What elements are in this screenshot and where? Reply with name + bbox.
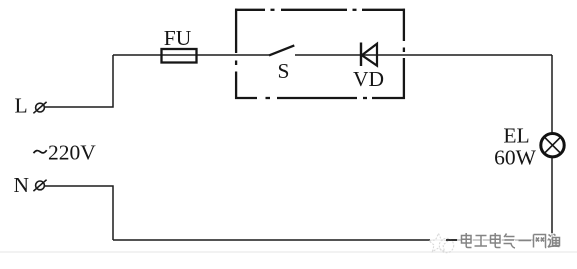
watermark logo (star and circle)	[429, 234, 454, 253]
svg-text:220V: 220V	[48, 140, 96, 164]
diode VD triangle	[362, 44, 377, 66]
switch S blade	[269, 45, 294, 55]
dash-dot enclosure top edge	[235, 9, 405, 11]
terminal L (circle with slash)	[33, 102, 46, 113]
dash-dot enclosure bottom edge	[235, 97, 405, 99]
svg-text:VD: VD	[353, 67, 384, 91]
wire: top run from riser to switch left contact	[113, 54, 269, 56]
label ~220V tilde	[34, 150, 47, 153]
svg-text:N: N	[14, 173, 30, 197]
svg-text:L: L	[15, 94, 28, 118]
fuse FU	[162, 49, 197, 63]
char 气	[504, 234, 516, 249]
char 电	[491, 233, 501, 248]
dash-dot enclosure right edge	[403, 9, 405, 99]
watermark logo backing	[430, 233, 447, 246]
watermark text 电工电气一网通 (drawn strokes)	[462, 233, 560, 248]
char 电	[462, 233, 472, 248]
char 网	[534, 235, 546, 248]
char 一	[519, 240, 532, 242]
wire: L terminal to riser	[45, 55, 113, 107]
diode VD cathode bar	[360, 43, 362, 67]
watermark text backing glow	[457, 233, 561, 248]
terminal N (circle with slash)	[33, 180, 46, 191]
svg-text:60W: 60W	[494, 146, 537, 170]
bottom page divider line	[0, 251, 577, 253]
dash-dot enclosure left edge	[235, 9, 237, 99]
wire: lamp to bottom run	[551, 158, 553, 240]
wire: bottom run	[113, 239, 552, 241]
lamp EL (circle with cross)	[541, 134, 564, 157]
svg-text:FU: FU	[164, 26, 192, 50]
svg-text:S: S	[278, 59, 290, 83]
wire: switch right contact to top-right corner	[295, 54, 552, 56]
wire: N riser	[45, 186, 113, 240]
wire: right drop to lamp	[551, 55, 553, 133]
watermark text white emboss copy	[462, 234, 560, 249]
svg-text:EL: EL	[503, 124, 529, 148]
char 工	[475, 236, 488, 247]
char 通	[548, 234, 560, 247]
wire patch over logo circle	[446, 239, 458, 241]
